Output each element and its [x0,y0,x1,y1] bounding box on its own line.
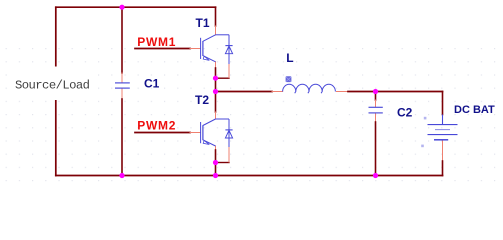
svg-text:PWM1: PWM1 [137,35,176,49]
svg-text:PWM2: PWM2 [137,119,176,133]
wire C2 branch lower segment [375,122,377,176]
wire T1 collector segment [215,7,217,26]
junction: bottom bus / C2 branch [373,173,378,178]
wire C1 lower pin lead [121,89,123,100]
capacitor C1 [115,83,130,88]
wire C1 branch lower segment [121,99,123,176]
wire phase node down to T2 collector [215,92,217,113]
junction: T1 emitter / diode anode [213,76,218,81]
svg-text:T2: T2 [195,93,209,107]
wire T1 diode return (bottom of D1) [216,77,230,79]
inductor L [283,84,336,93]
wire T2 emitter to bottom junction [215,150,217,163]
wire T2 collector pin lead [215,112,217,119]
wire C2 branch top segment [375,92,377,101]
junction: top bus / C1 branch [119,5,124,10]
wire T1 emitter pin lead [215,62,217,68]
wire C1 branch upper segment [121,7,123,73]
transistor T2 (IGBT) [201,119,229,146]
wire battery top segment [442,92,444,115]
diode (freewheel diode of T2) [225,119,232,147]
svg-text:DC BAT: DC BAT [454,104,495,116]
wire top bus (left loop top) [56,6,216,8]
wire bottom bus [56,175,443,177]
svg-text:C1: C1 [144,77,160,91]
wire inductor to battery corner [348,91,443,93]
capacitor C2 [369,107,383,113]
wire T1 gate pin lead [190,48,200,50]
wire left bus (source/load branch) [55,7,57,175]
diode (freewheel diode of T1) [225,35,232,64]
wire net PWM1 [135,48,190,50]
wire T1 emitter to phase node [215,68,217,92]
wire battery bottom segment [442,161,444,176]
junction: bottom bus / C1 branch [119,173,124,178]
wire T2 diode anode pin lead [228,147,230,163]
junction: bottom bus / T2 leg [213,173,218,178]
wire net PWM2 [135,132,190,134]
svg-text:Source/Load: Source/Load [15,78,90,92]
svg-text:L: L [286,51,293,65]
label Source/Load (with white mask over left bus) [13,67,92,101]
wire T2 diode return (bottom of D2) [216,162,230,164]
wire C1 upper pin lead [121,73,123,83]
battery DC BAT [428,115,458,140]
wire C2 lower pin lead [375,114,377,123]
wire C2 upper pin lead [375,100,377,107]
wire inductor right pin lead [337,91,349,93]
svg-text:T1: T1 [196,16,210,30]
wire battery bottom pin lead [442,141,444,162]
svg-text:C2: C2 [397,105,413,119]
junction: phase node (to inductor) [213,89,218,94]
battery minus mark (pin 2) [421,145,424,148]
wire T2 gate pin lead [190,132,200,134]
inductor L polarity marker [286,76,292,82]
wire T1 diode anode pin lead [228,64,230,78]
junction: T2 emitter / diode anode [213,160,218,165]
wire phase node to inductor [216,91,273,93]
transistor T1 (IGBT) [201,35,229,62]
junction: C2 branch top [373,89,378,94]
wire inductor left pin lead [272,91,283,93]
wire T1 collector pin lead [215,26,217,35]
wire T2 bottom junction to bottom bus [215,163,217,176]
battery plus mark (pin 1) [424,117,427,120]
wire T2 emitter pin lead [215,146,217,150]
